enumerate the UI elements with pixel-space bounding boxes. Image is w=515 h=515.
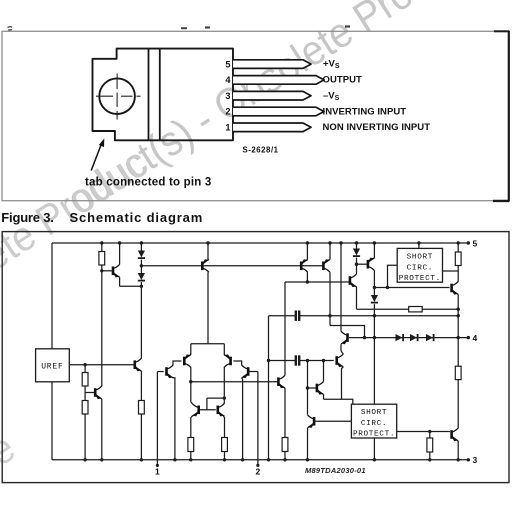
svg-text:3: 3 xyxy=(473,455,478,465)
svg-text:4: 4 xyxy=(225,75,231,85)
svg-text:PROTECT.: PROTECT. xyxy=(353,431,395,439)
svg-text:OUTPUT: OUTPUT xyxy=(323,75,362,86)
svg-text:5: 5 xyxy=(473,239,478,249)
svg-text:INVERTING INPUT: INVERTING INPUT xyxy=(323,106,407,117)
svg-text:PROTECT.: PROTECT. xyxy=(399,275,441,283)
svg-text:Figure 3.: Figure 3. xyxy=(1,210,53,225)
svg-text:tab connected to pin 3: tab connected to pin 3 xyxy=(85,176,211,188)
svg-text:CIRC.: CIRC. xyxy=(407,264,433,272)
svg-text:2: 2 xyxy=(256,467,261,477)
svg-text:5: 5 xyxy=(225,59,230,69)
svg-text:Schematic diagram: Schematic diagram xyxy=(70,210,204,225)
svg-text:M89TDA2030-01: M89TDA2030-01 xyxy=(305,466,366,475)
svg-text:1: 1 xyxy=(155,467,160,477)
svg-text:4: 4 xyxy=(473,333,478,343)
svg-text:SHORT: SHORT xyxy=(361,409,387,417)
svg-text:3: 3 xyxy=(225,91,230,101)
svg-text:UREF: UREF xyxy=(41,362,63,371)
svg-text:NON INVERTING INPUT: NON INVERTING INPUT xyxy=(323,122,431,133)
svg-text:2: 2 xyxy=(225,107,230,117)
svg-text:SHORT: SHORT xyxy=(407,253,433,261)
svg-text:CIRC.: CIRC. xyxy=(361,420,387,428)
svg-text:S-2628/1: S-2628/1 xyxy=(243,146,279,155)
svg-text:1: 1 xyxy=(225,123,230,133)
